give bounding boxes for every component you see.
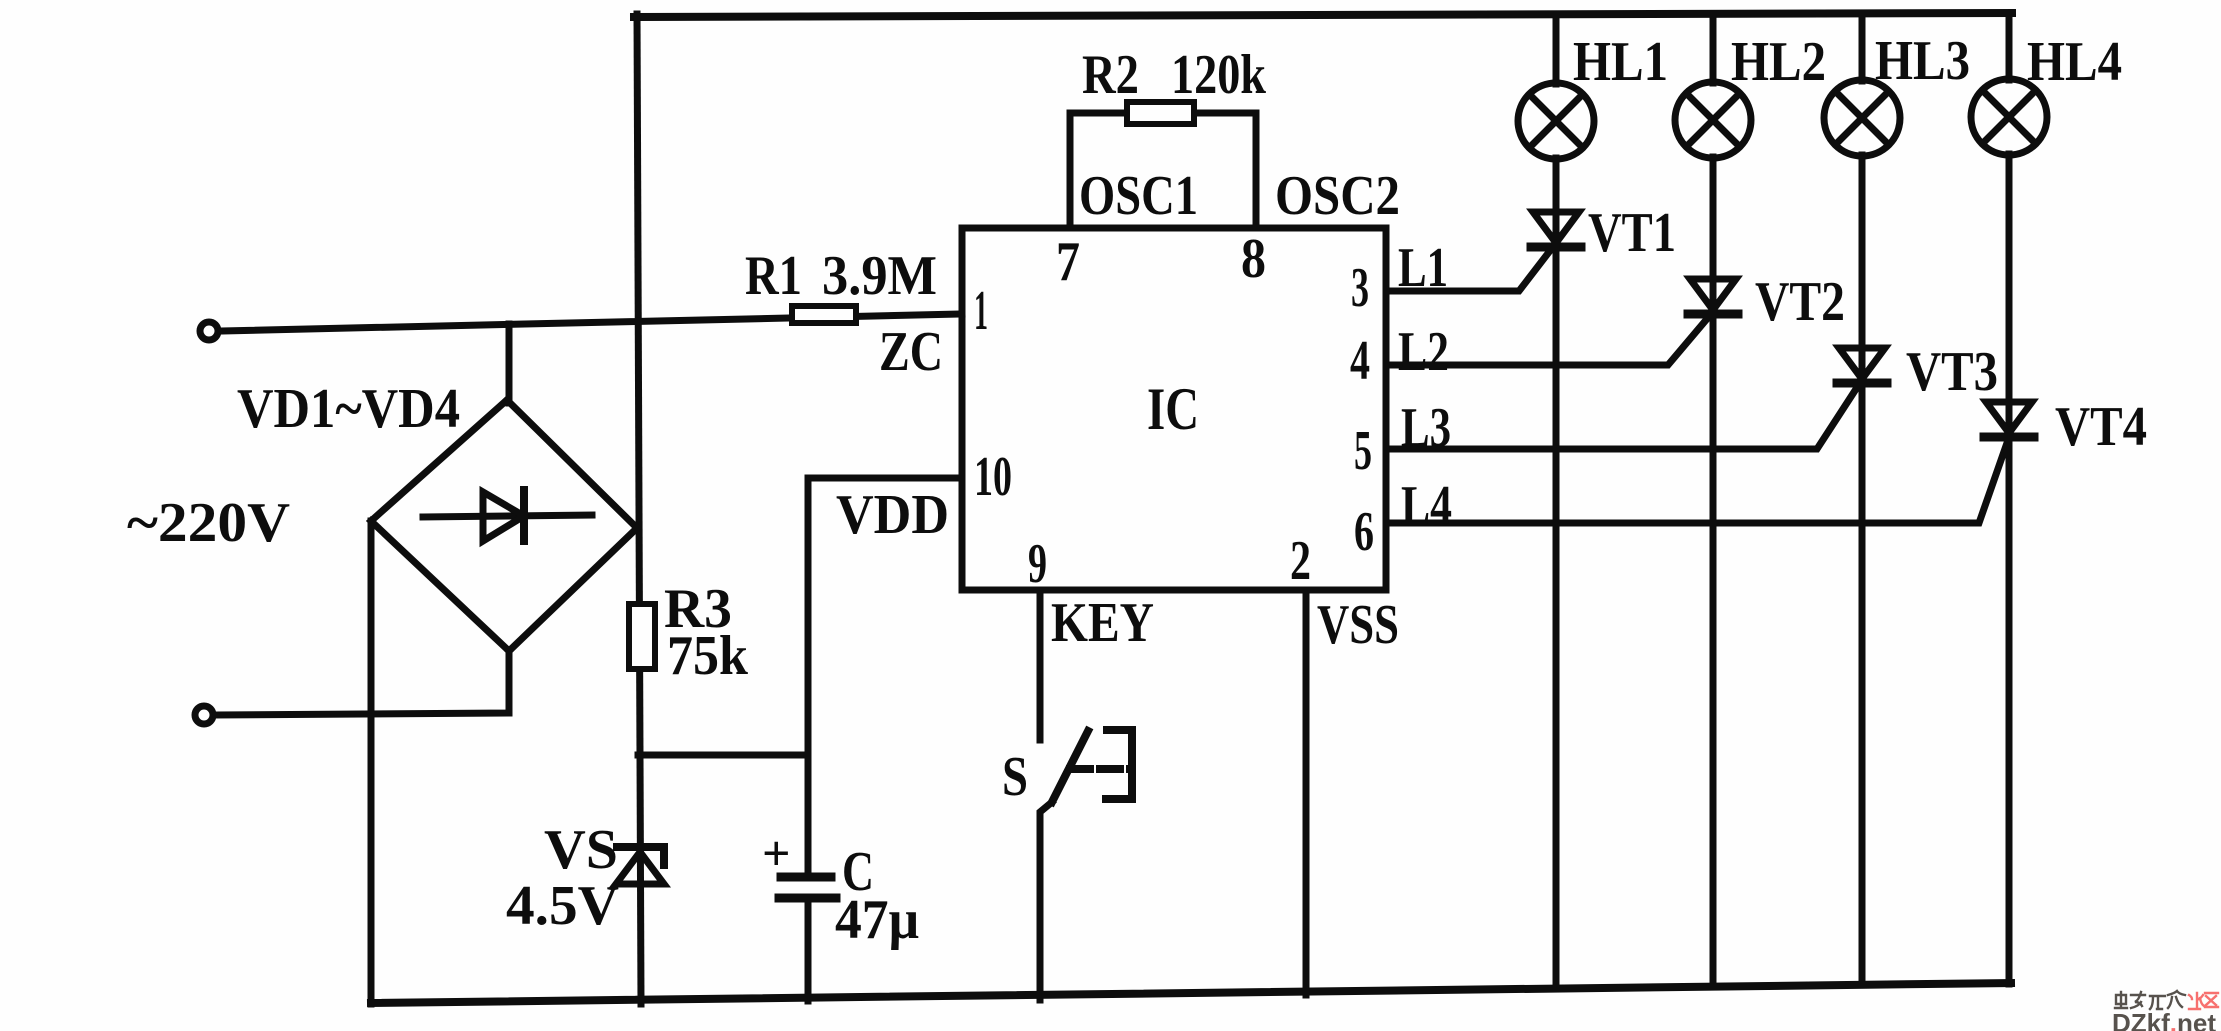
lamp HL2	[1675, 15, 1751, 987]
label OSC1	[1079, 165, 1198, 227]
svg-text:2: 2	[1290, 530, 1311, 592]
svg-text:ZC: ZC	[879, 321, 943, 383]
wire bridge left vertex down to bottom bus	[368, 521, 375, 1004]
svg-text:S: S	[1002, 746, 1028, 808]
watermark logo DZKF	[2112, 991, 2218, 1031]
resistor R1	[792, 306, 856, 323]
wire input 1 to pin ZC	[221, 314, 962, 331]
svg-text:HL3: HL3	[1875, 30, 1970, 92]
svg-text:HL1: HL1	[1573, 31, 1668, 93]
label HL2	[1731, 31, 1826, 93]
label ~220V	[127, 492, 290, 554]
label + polarity	[762, 825, 791, 881]
label L4	[1401, 475, 1452, 537]
svg-text:HL2: HL2	[1731, 31, 1826, 93]
pin 2	[1290, 530, 1311, 592]
label S	[1002, 746, 1028, 808]
svg-text:VT4: VT4	[2055, 396, 2147, 458]
label HL4	[2027, 31, 2122, 93]
svg-text:VT3: VT3	[1906, 341, 1998, 403]
switch S	[1040, 730, 1132, 1000]
svg-text:L1: L1	[1398, 237, 1448, 299]
svg-text:HL4: HL4	[2027, 31, 2122, 93]
lamp HL1	[1518, 15, 1594, 989]
svg-text:VT2: VT2	[1755, 271, 1845, 333]
svg-text:7: 7	[1056, 231, 1080, 293]
wire bottom return bus	[371, 983, 2011, 1003]
label VDD	[836, 484, 949, 546]
label ZC	[879, 321, 943, 383]
label R3 75k	[664, 578, 749, 687]
wire OSC1 loop left	[1070, 113, 1127, 228]
svg-text:75k: 75k	[667, 625, 749, 687]
svg-text:DZkf.net: DZkf.net	[2112, 1008, 2216, 1031]
label L1	[1398, 237, 1448, 299]
pin 8	[1241, 228, 1266, 290]
svg-text:6: 6	[1354, 501, 1374, 563]
label R2 120k	[1082, 44, 1267, 106]
label KEY	[1051, 592, 1154, 654]
resistor R2	[1127, 102, 1194, 124]
svg-text:L4: L4	[1401, 475, 1452, 537]
label R1 3.9M	[745, 245, 937, 307]
pin 5	[1354, 420, 1372, 482]
pin 7	[1056, 231, 1080, 293]
wire OSC2 loop right	[1194, 113, 1256, 228]
svg-text:8: 8	[1241, 228, 1266, 290]
label IC	[1147, 376, 1199, 442]
pin 3	[1351, 257, 1369, 319]
pin 1	[974, 280, 988, 342]
label VD1~VD4	[237, 378, 460, 440]
thyristor VT1	[1531, 212, 1581, 247]
svg-text:120k: 120k	[1171, 44, 1267, 106]
label OSC2	[1275, 165, 1400, 227]
svg-text:IC: IC	[1147, 376, 1199, 442]
svg-text:L3: L3	[1401, 397, 1451, 459]
pin 10	[974, 446, 1012, 508]
svg-text:5: 5	[1354, 420, 1372, 482]
svg-text:~220V: ~220V	[127, 492, 290, 554]
lamp HL4	[1971, 15, 2047, 984]
resistor R3	[629, 604, 655, 669]
label VT4	[2055, 396, 2147, 458]
svg-text:9: 9	[1028, 533, 1047, 595]
wire R3 node to VDD node	[638, 752, 808, 759]
label HL3	[1875, 30, 1970, 92]
label L2	[1398, 321, 1449, 383]
capacitor C	[779, 877, 836, 1001]
svg-text:3.9M: 3.9M	[822, 245, 937, 307]
pin 4	[1350, 330, 1370, 392]
label VT1	[1588, 202, 1676, 264]
svg-text:VDD: VDD	[836, 484, 949, 546]
label VSS	[1317, 594, 1399, 656]
svg-text:VS: VS	[544, 819, 618, 881]
svg-text:3: 3	[1351, 257, 1369, 319]
svg-text:R1: R1	[745, 245, 802, 307]
svg-text:VSS: VSS	[1317, 594, 1399, 656]
svg-text:+: +	[762, 825, 791, 881]
wire L2 from pin 4	[1386, 320, 1706, 365]
wire left vertical bus	[637, 14, 641, 1004]
label L3	[1401, 397, 1451, 459]
svg-text:OSC1: OSC1	[1079, 165, 1198, 227]
IC U1 box	[962, 228, 1386, 590]
wire input 2 to bridge bottom vertex	[216, 651, 509, 715]
wire top supply bus	[634, 13, 2012, 17]
svg-text:4.5V: 4.5V	[506, 875, 619, 937]
svg-text:47μ: 47μ	[835, 889, 919, 951]
svg-text:KEY: KEY	[1051, 592, 1154, 654]
wire stub to bridge top vertex	[506, 324, 513, 403]
label VT3	[1906, 341, 1998, 403]
wire VSS from pin 2	[1303, 590, 1310, 995]
svg-text:4: 4	[1350, 330, 1370, 392]
pin 6	[1354, 501, 1374, 563]
lamp HL3	[1824, 15, 1900, 985]
zener diode VS	[616, 847, 664, 884]
wire L1 from pin 3	[1386, 252, 1549, 291]
terminal input 2	[195, 706, 213, 724]
wire VDD vertical	[808, 478, 962, 873]
pin 9	[1028, 533, 1047, 595]
thyristor VT4	[1984, 402, 2034, 437]
label VT2	[1755, 271, 1845, 333]
wire L3 from pin 5	[1386, 389, 1856, 449]
thyristor VT2	[1688, 279, 1738, 314]
wire KEY from pin 9	[1037, 590, 1044, 740]
svg-text:OSC2: OSC2	[1275, 165, 1400, 227]
svg-text:R2: R2	[1082, 44, 1139, 106]
svg-text:VD1~VD4: VD1~VD4	[237, 378, 460, 440]
svg-text:L2: L2	[1398, 321, 1449, 383]
label VS 4.5V	[506, 819, 619, 937]
bridge rectifier VD1~VD4	[371, 400, 637, 651]
terminal input 1	[200, 322, 218, 340]
wire L4 from pin 6	[1386, 443, 2007, 523]
svg-text:10: 10	[974, 446, 1012, 508]
label C 47u	[835, 841, 919, 951]
label HL1	[1573, 31, 1668, 93]
svg-text:VT1: VT1	[1588, 202, 1676, 264]
svg-text:1: 1	[974, 280, 988, 342]
thyristor VT3	[1837, 348, 1887, 383]
